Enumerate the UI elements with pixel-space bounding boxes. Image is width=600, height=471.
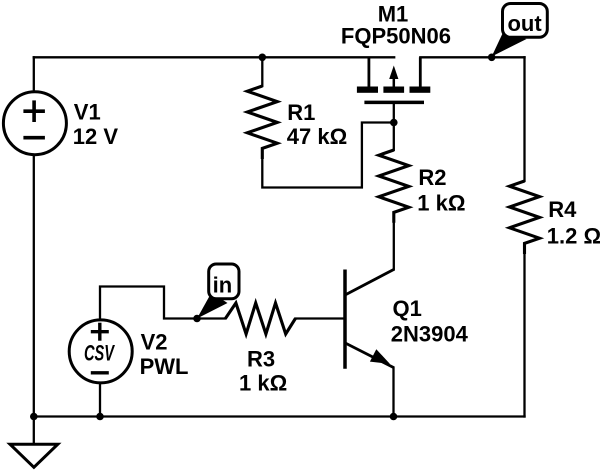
svg-text:R1: R1 <box>287 100 315 125</box>
svg-text:V2: V2 <box>141 329 168 354</box>
svg-text:1 kΩ: 1 kΩ <box>417 190 465 215</box>
svg-text:FQP50N06: FQP50N06 <box>341 24 451 49</box>
svg-text:PWL: PWL <box>140 354 189 379</box>
svg-text:Q1: Q1 <box>393 296 422 321</box>
svg-text:1.2 Ω: 1.2 Ω <box>547 223 600 248</box>
svg-text:R2: R2 <box>418 165 446 190</box>
svg-text:R3: R3 <box>247 346 275 371</box>
svg-text:in: in <box>213 272 233 297</box>
svg-text:V1: V1 <box>74 99 101 124</box>
svg-text:CSV: CSV <box>84 341 116 366</box>
svg-text:out: out <box>507 11 542 36</box>
svg-text:12 V: 12 V <box>73 124 119 149</box>
svg-text:47 kΩ: 47 kΩ <box>287 124 347 149</box>
svg-text:R4: R4 <box>548 197 577 222</box>
svg-text:1 kΩ: 1 kΩ <box>239 371 287 396</box>
svg-text:2N3904: 2N3904 <box>391 322 469 347</box>
